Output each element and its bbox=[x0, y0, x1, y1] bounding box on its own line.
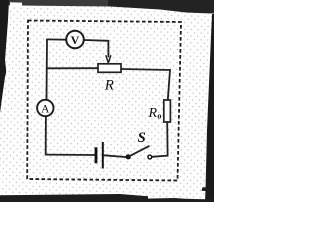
dashed boundary box bbox=[27, 21, 181, 181]
wire: R0 bottom to bottom-right corner bbox=[166, 122, 168, 156]
photo dark edges (decorative) bbox=[0, 0, 110, 7]
svg-text:R: R bbox=[148, 106, 158, 121]
wire: battery to bottom-left corner bbox=[46, 154, 95, 156]
wire: rheostat right to top-right corner, down to R0 bbox=[121, 69, 170, 100]
wire: ammeter to bottom-left corner bbox=[45, 116, 47, 154]
rheostat R body bbox=[98, 64, 121, 73]
battery cell bbox=[96, 142, 103, 169]
wire: switch to battery bbox=[104, 155, 126, 157]
svg-text:o: o bbox=[157, 112, 161, 121]
wire: left vertical (top corner down to ammeter) bbox=[46, 39, 49, 99]
resistor R0 body bbox=[164, 100, 171, 122]
svg-text:V: V bbox=[71, 33, 80, 47]
wire: bottom-right corner to switch bbox=[152, 156, 168, 157]
wire: top-left to voltmeter bbox=[47, 38, 66, 40]
wire: junction to rheostat left bbox=[47, 67, 98, 69]
svg-text:S: S bbox=[138, 130, 146, 146]
rheostat wiper arrow bbox=[106, 55, 111, 63]
svg-text:R: R bbox=[104, 77, 114, 93]
wire: voltmeter to rheostat wiper (with down segment) bbox=[84, 40, 109, 57]
switch S bbox=[126, 146, 152, 160]
ammeter A bbox=[37, 100, 53, 116]
voltmeter U=V bbox=[66, 31, 84, 49]
svg-text:A: A bbox=[41, 104, 50, 116]
